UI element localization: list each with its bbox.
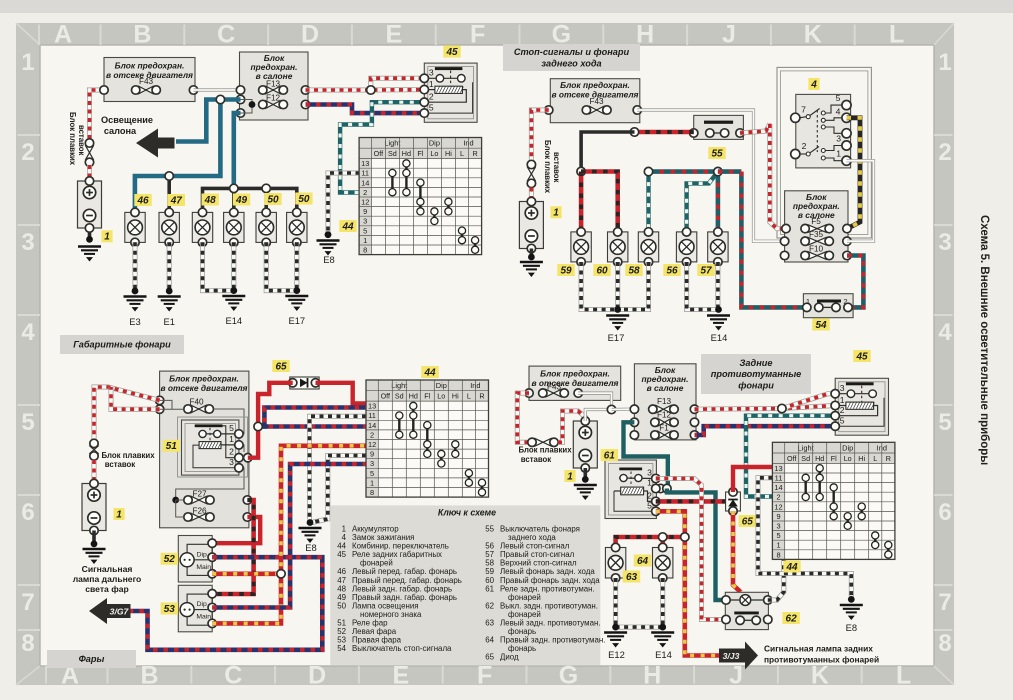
junction E12 (612, 624, 619, 631)
wire: node C to bulb 56 (687, 172, 718, 232)
svg-text:C: C (217, 21, 235, 49)
svg-text:1: 1 (938, 49, 951, 76)
svg-text:65: 65 (742, 516, 754, 527)
wire: drop to bulb 49 (232, 188, 236, 212)
ground (battery) BL (83, 549, 106, 564)
svg-text:12: 12 (774, 502, 782, 511)
wire: bulb 50b to ground E17 (294, 242, 299, 290)
wire: battery to ground TL (88, 228, 92, 239)
svg-text:8: 8 (938, 630, 951, 657)
svg-text:48: 48 (204, 195, 217, 206)
svg-text:лампа дальнего: лампа дальнего (73, 574, 142, 584)
section title: Габаритные фонари (60, 335, 184, 354)
svg-text:1: 1 (429, 79, 434, 89)
wire: drop to bulb 47 (167, 176, 171, 212)
junction E14 TL (230, 287, 237, 294)
fusible link (Блок плавких вставок) TL (89, 143, 91, 162)
svg-text:K: K (811, 662, 829, 690)
svg-text:2: 2 (776, 493, 780, 502)
svg-text:8: 8 (363, 246, 367, 255)
svg-text:61: 61 (604, 450, 616, 461)
svg-text:62: 62 (786, 613, 798, 624)
node: F12 input BR (630, 418, 638, 426)
svg-text:9: 9 (370, 450, 374, 459)
wire: relay 61 pin 5 to fog bulbs and 3/J3 (656, 511, 719, 655)
svg-text:1: 1 (553, 208, 559, 219)
svg-text:1: 1 (840, 395, 845, 405)
section title: Задние противотуманные фонари (701, 354, 811, 394)
bulb 60 (right reversing lamp) (608, 228, 628, 266)
svg-text:Sd: Sd (388, 149, 397, 158)
svg-text:8: 8 (776, 550, 780, 559)
svg-text:Lo: Lo (430, 149, 438, 158)
junction dot F27/F26 input (172, 497, 179, 504)
svg-text:45: 45 (337, 550, 346, 559)
svg-text:H: H (643, 662, 661, 690)
svg-text:фонари: фонари (738, 381, 774, 391)
fog bulb 64 (Правый задн. противотуман. фонарь) (653, 543, 673, 582)
node: bus C above bulb 57 (714, 167, 722, 175)
wire: bulb 49 to ground E14 (231, 242, 236, 290)
svg-text:L: L (873, 454, 877, 463)
wire: feed to bulbs 46/47 (135, 100, 221, 213)
node: cabin block TL input F13 (236, 86, 244, 94)
internal link F40 (160, 408, 184, 410)
svg-text:L: L (889, 21, 904, 49)
svg-text:6: 6 (21, 499, 34, 526)
node: relay51/дiode junction (254, 422, 262, 430)
svg-text:51: 51 (166, 441, 178, 452)
svg-text:F10: F10 (809, 245, 824, 254)
svg-text:Ключ к схеме: Ключ к схеме (438, 508, 496, 518)
pin 3 of relay 51 (235, 464, 243, 472)
svg-text:Hi: Hi (858, 454, 865, 463)
svg-text:14: 14 (361, 178, 369, 187)
junction battery negative TR (528, 254, 535, 261)
node: switch 55 left terminal (690, 129, 698, 137)
wire: distribution bus bulbs 48-50 (203, 188, 297, 212)
node: diode right (311, 379, 319, 387)
wire: battery/F43 to cabin fuses BR (585, 410, 611, 422)
fuse block (engine bay) TL (104, 58, 195, 102)
svg-text:Off: Off (787, 454, 796, 463)
svg-text:Блок плавких: Блок плавких (101, 451, 155, 460)
wire: fog bulb feed bus (616, 537, 685, 548)
svg-text:4: 4 (21, 319, 35, 346)
wire: feed to rear bulbs group (234, 113, 241, 188)
node: branch to relay 45 pins (367, 86, 375, 94)
fusible link (Блок плавких вставок) BL (93, 443, 95, 456)
wire: relay 45 pin 2 to switch table row 2 TL (340, 102, 424, 192)
wire: F43 TR to cabin fuse F35 (637, 110, 784, 241)
wire: F13 to relay 45 BR (695, 406, 836, 410)
node: above bulb 64 (659, 533, 667, 541)
svg-text:B: B (140, 662, 158, 690)
wire: bulb 60 to ground E17 TR (615, 262, 620, 310)
pin 3 of ignition switch (842, 141, 851, 150)
svg-text:45: 45 (445, 47, 458, 58)
diode 65 BR (Диод) (726, 492, 741, 511)
ground E17 TR (606, 316, 629, 331)
bulb 46 (left front side light) (125, 208, 145, 246)
svg-text:9: 9 (363, 207, 367, 216)
wire: bulb 47 to ground E1 (167, 242, 172, 291)
wire: bulb 63 to ground E12 (613, 578, 618, 627)
ground E3 (124, 297, 147, 312)
ground E14 TL (222, 296, 245, 311)
svg-text:Light: Light (798, 443, 814, 452)
bulb 59 (left reversing lamp) (571, 228, 591, 266)
wire: branch to pin 3 relay 45 BR (782, 394, 835, 409)
battery 1 (Аккумулятор) BL (82, 484, 106, 531)
svg-text:44: 44 (341, 221, 354, 232)
svg-text:50: 50 (337, 601, 346, 610)
svg-text:5: 5 (363, 226, 367, 235)
svg-text:5: 5 (840, 416, 845, 426)
svg-text:2: 2 (21, 139, 34, 166)
svg-text:E: E (385, 21, 402, 49)
svg-text:J: J (722, 21, 736, 49)
wire: link to battery BR (558, 411, 585, 442)
svg-text:Фары: Фары (79, 654, 105, 664)
svg-text:1: 1 (363, 236, 367, 245)
svg-text:света фар: света фар (85, 584, 129, 594)
svg-text:52: 52 (164, 554, 176, 565)
svg-text:K: K (804, 21, 822, 49)
wire: relay 61 pin 2 to diode 65 BR (656, 501, 733, 509)
node: switch 54 terminal 2 (844, 303, 852, 311)
pin 1 of relay 61 (652, 484, 660, 492)
svg-text:3: 3 (21, 229, 34, 256)
wire: reverse bus node B to bulb 58 (646, 172, 650, 232)
svg-text:Fl: Fl (831, 454, 837, 463)
svg-text:R: R (479, 392, 484, 401)
svg-text:Освещение: Освещение (101, 115, 153, 125)
svg-text:1: 1 (104, 232, 110, 243)
svg-text:Hd: Hd (402, 149, 411, 158)
svg-text:2: 2 (429, 92, 434, 102)
wire: to bulb 59 (579, 172, 584, 232)
svg-text:1: 1 (836, 149, 841, 159)
wire: diode 65 to table row 13 BL (316, 383, 367, 404)
svg-text:3: 3 (363, 217, 367, 226)
bulb 49 (right rear side light) (224, 208, 244, 246)
node: cabin block TL output b (236, 109, 244, 117)
bulb 47 (right front side light) (159, 208, 179, 246)
svg-text:11: 11 (361, 169, 369, 178)
legend box: Ключ к схеме (330, 505, 600, 665)
svg-text:Габаритные фонари: Габаритные фонари (73, 340, 171, 350)
svg-text:E3: E3 (129, 316, 140, 327)
wire: F27 to right headlamp 53 (212, 500, 253, 594)
svg-text:Диод: Диод (500, 653, 519, 662)
junction E17 TL (293, 287, 300, 294)
svg-text:3: 3 (836, 134, 841, 144)
svg-text:Hi: Hi (452, 392, 459, 401)
svg-text:3: 3 (429, 68, 434, 78)
node: F13 input BR (630, 405, 638, 413)
junction E8 TL (325, 231, 332, 238)
svg-text:1: 1 (776, 541, 780, 550)
node: switch 62 contact left (722, 615, 730, 623)
svg-text:44: 44 (423, 367, 436, 378)
wire: 52 dip beam to 3/G7 arrow (131, 557, 323, 650)
diode 65 BL (Диод) (290, 377, 319, 389)
svg-text:Dip: Dip (429, 139, 440, 148)
svg-text:Сигнальная: Сигнальная (82, 564, 133, 574)
svg-text:противотуманных фонарей: противотуманных фонарей (764, 655, 879, 665)
svg-text:Выключатель стоп-сигнала: Выключатель стоп-сигнала (352, 644, 452, 653)
svg-text:60: 60 (596, 265, 608, 276)
node: switch 54 terminal 1 (803, 303, 811, 311)
svg-text:F43: F43 (589, 97, 604, 106)
node: F26 output (243, 513, 251, 521)
node: branch to relay 45 BR (778, 404, 786, 412)
junction E8 BL (307, 519, 314, 526)
svg-text:Dip: Dip (197, 601, 207, 608)
wire: 52 main beam (212, 571, 281, 576)
svg-text:3/J3: 3/J3 (723, 651, 740, 661)
svg-text:44: 44 (785, 562, 798, 573)
ground E14 BR (651, 633, 674, 648)
svg-text:Hd: Hd (815, 454, 824, 463)
svg-text:3: 3 (938, 229, 951, 256)
svg-text:вставок: вставок (552, 152, 561, 183)
svg-text:13: 13 (368, 402, 376, 411)
junction E1 (166, 288, 173, 295)
node: bus B above bulb 58 (644, 167, 652, 175)
junction E8 BR (848, 596, 855, 603)
wire: ignition pin 4 to fuse F5 (847, 118, 861, 229)
svg-text:J: J (729, 662, 743, 690)
svg-text:C: C (224, 662, 242, 690)
wire: link to battery TL (87, 165, 92, 181)
svg-text:E17: E17 (288, 315, 305, 326)
arrow 3/G7 (to sheet 3 grid G7) (89, 598, 131, 624)
svg-text:E14: E14 (711, 332, 728, 343)
headlamp 52 (Левая фара) (178, 536, 212, 583)
wire: F10 output to stop switch 54 (847, 256, 863, 308)
wire: switch table row 11 to ground E8 TL (328, 173, 360, 235)
svg-text:46: 46 (136, 195, 149, 206)
wire: relay 51 pin 2 to diode 65 (248, 383, 293, 458)
svg-text:R: R (886, 454, 891, 463)
svg-text:65: 65 (485, 653, 494, 662)
svg-text:E8: E8 (846, 622, 857, 633)
svg-text:Lo: Lo (437, 392, 445, 401)
fuse block (engine bay) BR (529, 366, 621, 400)
svg-text:Light: Light (391, 381, 407, 390)
battery 1 (Аккумулятор) BR (573, 421, 597, 468)
svg-text:3: 3 (840, 383, 845, 393)
node: BR block left terminal (525, 389, 533, 397)
ground (battery) TR (520, 262, 543, 277)
wire: bulb 46 to ground E3 (133, 242, 138, 291)
svg-text:50: 50 (267, 194, 279, 205)
svg-text:заднего хода: заднего хода (541, 58, 601, 68)
wire: F12 to relay 61 coil and switch 62 (624, 422, 668, 488)
wire: battery to F40 (outer) (94, 387, 160, 440)
svg-text:47: 47 (170, 195, 183, 206)
stop light switch 54 (Выключатель стоп-сигнала) (803, 294, 853, 318)
svg-text:63: 63 (626, 572, 638, 583)
svg-text:Блок предохран.: Блок предохран. (169, 374, 239, 384)
svg-text:Hd: Hd (409, 392, 418, 401)
svg-text:в салоне: в салоне (647, 383, 684, 393)
svg-text:вставок: вставок (105, 460, 136, 469)
wire: branch to pin 3 of relay 45 TL (371, 78, 425, 90)
pin 3 of relay 61 (652, 474, 660, 482)
headlamp relay 51 (Реле фар) (178, 417, 248, 477)
node: junction above bulb 47 (165, 172, 173, 180)
pin 7 of ignition switch (791, 113, 800, 122)
wire: drop to bulb 64 (660, 537, 665, 548)
node: switch 62 contact right (764, 615, 772, 623)
ignition switch 4 (Замок зажигания) (777, 67, 871, 238)
svg-text:5: 5 (776, 531, 780, 540)
wire: F12 output to pin 5 of relay 45 TL (306, 105, 425, 114)
relay 45 BR (835, 378, 888, 435)
node: junction 55 feed (630, 128, 638, 136)
relay 45 (Реле задних габаритных фонарей) (424, 63, 477, 122)
cabin fuse block TR (Блок предохран. в салоне) (785, 191, 848, 262)
svg-text:56: 56 (666, 265, 678, 276)
svg-text:55: 55 (711, 148, 723, 159)
fog light switch 62 (Выкл. задн. противотуман. фонарей) (725, 592, 768, 629)
wire: bulb 48 to ground E14 (203, 242, 234, 290)
svg-text:3: 3 (229, 457, 234, 467)
svg-text:45: 45 (855, 351, 868, 362)
svg-text:62: 62 (485, 601, 494, 610)
svg-text:4: 4 (810, 79, 817, 90)
svg-text:1: 1 (567, 471, 573, 482)
svg-text:E1: E1 (163, 316, 174, 327)
ground E17 TL (285, 296, 308, 311)
node: fuse block TL left terminal (100, 86, 108, 94)
svg-text:4: 4 (836, 107, 841, 117)
switch table 44 BL (366, 380, 489, 497)
node: fuse block TL right terminal (189, 86, 197, 94)
wire: link E12-E14 (616, 625, 663, 630)
fusible link (Блок плавких вставок) BR (532, 441, 554, 443)
junction battery negative BL (91, 541, 98, 548)
node: diode BR bottom (729, 507, 737, 515)
node: BL block input b (155, 405, 163, 413)
svg-text:3/G7: 3/G7 (110, 607, 130, 617)
pin 5 of ignition switch (842, 101, 851, 110)
svg-text:F13: F13 (657, 397, 672, 406)
wire: battery to F40 (inner) (111, 387, 160, 409)
svg-text:F1: F1 (659, 424, 669, 433)
node: relay 51 pin 2 external (244, 454, 252, 462)
fog bulb 63 (Левый задн. противотуман. фонарь) (605, 543, 625, 582)
node: TR fuse block right terminal (633, 106, 641, 114)
node: F10 input (780, 251, 788, 259)
svg-text:Dip: Dip (436, 381, 447, 390)
svg-text:L: L (467, 392, 471, 401)
svg-text:5: 5 (836, 93, 841, 103)
svg-text:7: 7 (938, 589, 951, 616)
junction at battery negative TL (86, 236, 93, 243)
svg-text:65: 65 (275, 361, 287, 372)
node: BL block input a (155, 396, 163, 404)
svg-text:Hi: Hi (445, 149, 452, 158)
ground (battery) BR (574, 485, 597, 500)
junction E17 TR (614, 306, 621, 313)
wire: switch 55 to stop lamp bus (635, 130, 694, 135)
svg-text:11: 11 (368, 411, 376, 420)
node: F35 input (780, 237, 788, 245)
svg-text:F35: F35 (809, 230, 824, 239)
node: F12 output TL (301, 100, 309, 108)
wire: table row 11 BR to ground E8 BR (758, 478, 851, 600)
svg-text:49: 49 (235, 195, 248, 206)
ignition switch contacts (800, 105, 842, 161)
wire: cabin lighting feed (Освещение салона) (176, 100, 241, 142)
svg-text:3: 3 (647, 468, 652, 478)
fuse block (engine bay) BL (160, 371, 249, 528)
svg-text:5: 5 (370, 469, 374, 478)
svg-text:Задние: Задние (740, 358, 773, 368)
svg-text:5: 5 (229, 423, 234, 433)
node: F13 output TL (301, 86, 309, 94)
svg-text:3: 3 (776, 522, 780, 531)
svg-text:E17: E17 (608, 332, 625, 343)
svg-text:E8: E8 (323, 254, 334, 265)
svg-text:53: 53 (164, 604, 176, 615)
wire: junction to table row 13 (navy) (258, 408, 366, 427)
node: F5 input (782, 224, 790, 232)
ground (battery) TL (78, 247, 101, 262)
svg-text:L: L (896, 662, 911, 690)
node: bus junction above bulb 49 (230, 184, 238, 192)
node: bus junction above bulb 50 (262, 184, 270, 192)
ground E8 TL (317, 241, 340, 256)
bulb 57 (right stop lamp) (708, 228, 728, 266)
svg-text:5: 5 (429, 103, 434, 113)
wire: battery to F43 TR (531, 110, 548, 161)
node: F13 output BR (690, 405, 698, 413)
pin 4 of ignition switch (842, 113, 851, 122)
section title: Фары (47, 650, 136, 668)
svg-text:5: 5 (21, 409, 34, 436)
svg-text:59: 59 (560, 265, 572, 276)
wire: node B to node C (649, 169, 718, 174)
junction E14 BR (659, 624, 666, 631)
svg-text:Fl: Fl (417, 149, 423, 158)
wire: bulb 64 to ground E14 BR (660, 578, 665, 627)
svg-text:Блок предохран.: Блок предохран. (115, 61, 185, 71)
arrow 3/J3 (to sheet 3 grid J3) (719, 642, 758, 670)
svg-text:2: 2 (843, 297, 847, 306)
node: main beam junction (277, 570, 285, 578)
wire: drop to bulb 50a (264, 188, 268, 212)
svg-text:1: 1 (370, 478, 374, 487)
svg-text:58: 58 (628, 265, 640, 276)
svg-text:салона: салона (104, 126, 137, 136)
ground E12 (604, 633, 627, 648)
node: diode left (289, 379, 297, 387)
pin 2 of relay 51 (235, 454, 243, 462)
svg-text:Блок плавких: Блок плавких (543, 140, 552, 194)
pin 1 of ignition switch (842, 156, 851, 165)
svg-text:9: 9 (776, 512, 780, 521)
svg-text:12: 12 (368, 440, 376, 449)
svg-text:7: 7 (21, 589, 34, 616)
svg-text:1: 1 (21, 49, 34, 76)
svg-text:R: R (472, 149, 477, 158)
wire: relay 45 BR pin 5 feed (695, 426, 836, 435)
